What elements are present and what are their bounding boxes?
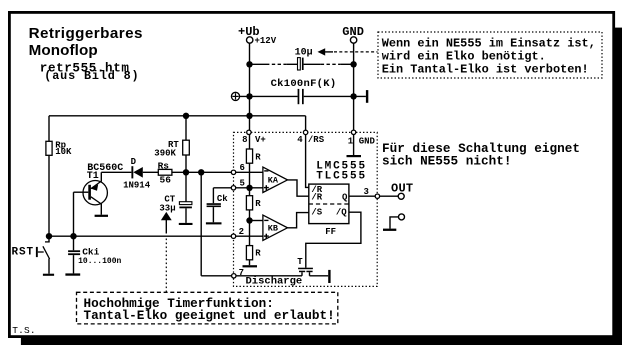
svg-text:RST: RST xyxy=(12,246,35,258)
svg-text:Ein Tantal-Elko ist verboten!: Ein Tantal-Elko ist verboten! xyxy=(382,62,589,76)
junction rail/RT xyxy=(183,113,189,119)
ground bar under Cki xyxy=(65,273,80,275)
wire 10µ right (dash-dot) xyxy=(304,63,354,65)
wire R mid to bottom xyxy=(249,210,251,246)
junction +Ub/Ck xyxy=(246,93,252,99)
svg-text:Wenn ein NE555 im Einsatz ist,: Wenn ein NE555 im Einsatz ist, xyxy=(382,37,596,51)
svg-text:/S: /S xyxy=(311,207,322,217)
resistor Rp xyxy=(46,116,72,236)
pin 5 circle xyxy=(231,186,235,190)
pin 3 circle xyxy=(375,194,379,198)
svg-text:/RS: /RS xyxy=(308,135,325,145)
svg-text:Retriggerbares: Retriggerbares xyxy=(29,25,143,42)
wire pin5 to KA+ xyxy=(234,187,263,189)
annotation arrow to 10µ xyxy=(318,48,378,55)
pin 8 circle xyxy=(247,130,251,134)
svg-text:390K: 390K xyxy=(154,149,176,159)
node plus-marker xyxy=(231,92,239,100)
svg-text:D: D xyxy=(131,157,137,167)
svg-text:Monoflop: Monoflop xyxy=(29,42,98,59)
wire Q to pin3 xyxy=(349,195,376,197)
diode D 1N914 xyxy=(101,157,158,190)
svg-text:Ck: Ck xyxy=(217,194,228,204)
title Retriggerbares Monoflop xyxy=(29,25,143,59)
wire R bottom to ground xyxy=(249,260,251,265)
resistor R bottom xyxy=(246,246,261,260)
comparator KA xyxy=(263,167,288,192)
wire trigger rail (pin2) xyxy=(49,235,263,237)
svg-text:Tantal-Elko geeignet und erlau: Tantal-Elko geeignet und erlaubt! xyxy=(84,308,335,323)
IC labels LMC555 TLC555 xyxy=(316,161,367,183)
svg-text:Cki: Cki xyxy=(82,247,99,258)
capacitor 10µ xyxy=(295,48,313,70)
wire pin4 to FF xyxy=(306,134,309,187)
svg-text:R: R xyxy=(255,152,261,162)
frame shadow right xyxy=(615,28,622,345)
svg-text:+12V: +12V xyxy=(255,36,277,46)
svg-text:T.S.: T.S. xyxy=(12,325,35,336)
ground bar terminal discharge xyxy=(328,270,330,283)
junction GND/Ck xyxy=(350,93,356,99)
svg-text:wird ein Elko benötigt.: wird ein Elko benötigt. xyxy=(382,49,546,63)
svg-text:3: 3 xyxy=(364,187,369,197)
wire pin1 to ground xyxy=(353,134,355,155)
svg-text:(aus Bild 8): (aus Bild 8) xyxy=(44,69,139,83)
capacitor Ck 100nF xyxy=(271,78,337,104)
capacitor Cki 10...100n xyxy=(68,236,121,273)
pin 4 label /RS xyxy=(297,135,324,145)
ground bar terminal right of Ck xyxy=(366,90,368,103)
wire Ck line left xyxy=(240,95,298,97)
svg-text:Ck100nF(K): Ck100nF(K) xyxy=(271,78,337,90)
ground bar pin1 xyxy=(347,155,362,157)
svg-text:sich NE555 nicht!: sich NE555 nicht! xyxy=(382,153,511,168)
wire GND vertical rail xyxy=(353,43,355,130)
junction Rp/RST xyxy=(46,233,52,239)
junction divider/KB xyxy=(246,217,252,223)
wire pin3 to OUT xyxy=(380,195,399,197)
junction +Ub/10µ xyxy=(246,61,252,67)
IC 555 dotted boundary xyxy=(234,132,378,286)
svg-text:V+: V+ xyxy=(255,135,266,145)
pin 1 circle xyxy=(351,130,355,134)
wire KB- input xyxy=(250,220,263,222)
node output ground stub xyxy=(383,214,405,231)
transistor T discharge xyxy=(297,257,313,276)
svg-text:4: 4 xyxy=(297,135,303,145)
text box Hochohmige Timerfunktion xyxy=(77,292,338,324)
pin 2 circle xyxy=(231,234,235,238)
wire Ck line right xyxy=(304,95,366,97)
svg-text:7: 7 xyxy=(239,268,244,278)
wire T1 base drop xyxy=(73,192,75,236)
resistor R top xyxy=(246,149,261,163)
resistor RT 390K xyxy=(154,116,189,173)
pin 6 circle xyxy=(231,170,235,174)
switch RST xyxy=(12,236,50,274)
svg-text:T: T xyxy=(297,257,303,267)
svg-text:GND: GND xyxy=(359,137,376,147)
ground bar under RST xyxy=(43,274,54,276)
svg-text:6: 6 xyxy=(240,163,245,173)
ground bar under Ck xyxy=(206,222,222,224)
svg-text:8: 8 xyxy=(242,135,247,145)
junction divider/pin5 xyxy=(246,185,252,191)
wire top rail xyxy=(49,115,306,117)
junction discharge drop xyxy=(198,169,204,175)
pin 7 circle xyxy=(232,274,236,278)
capacitor CT 33µ xyxy=(159,172,192,223)
svg-text:2: 2 xyxy=(239,227,244,237)
text box Wenn ein NE555 xyxy=(378,32,602,78)
wire KB out to FF xyxy=(288,213,309,228)
resistor R middle xyxy=(246,196,261,210)
ground bar divider xyxy=(243,265,258,267)
node GND terminal xyxy=(342,25,364,43)
text Für diese Schaltung xyxy=(382,141,580,168)
pin 4 circle xyxy=(303,130,307,134)
junction RT/trigger line xyxy=(183,169,189,175)
junction GND/10µ xyxy=(350,61,356,67)
ground bar under CT xyxy=(179,223,193,225)
wire /Q to discharge gate xyxy=(306,212,361,268)
resistor Rs 56 xyxy=(158,161,172,186)
node OUT terminal xyxy=(391,182,413,200)
wire 10µ left (dash-dot) xyxy=(250,63,298,65)
ground bar under T1 xyxy=(95,215,108,217)
wire +Ub vertical rail xyxy=(249,43,251,130)
junction T1 base/Cki xyxy=(70,233,76,239)
svg-text:R: R xyxy=(255,248,261,258)
wire KA out to FF xyxy=(288,180,309,196)
wire discharge drop from trigger node xyxy=(200,172,202,275)
comparator KB xyxy=(263,215,288,240)
svg-text:FF: FF xyxy=(325,227,336,237)
transistor T1 BC560C xyxy=(74,163,124,215)
svg-text:56: 56 xyxy=(160,174,172,185)
svg-text:KA: KA xyxy=(268,176,279,186)
flip-flop FF xyxy=(309,184,349,237)
svg-text:TLC555: TLC555 xyxy=(316,171,367,183)
svg-text:10K: 10K xyxy=(55,147,72,157)
svg-text:KB: KB xyxy=(268,224,278,234)
pin 8 label V+ xyxy=(242,135,266,145)
capacitor Ck (control voltage) xyxy=(207,188,234,223)
svg-text:Discharge: Discharge xyxy=(246,276,303,288)
wire discharge to ground bar xyxy=(310,275,329,277)
divider R chain wire xyxy=(249,134,251,149)
wire R top to mid xyxy=(249,163,251,196)
svg-text:1N914: 1N914 xyxy=(123,180,151,190)
wire pin4 drop from rail xyxy=(305,116,307,131)
svg-text:33µ: 33µ xyxy=(159,203,175,213)
node +Ub terminal xyxy=(238,25,277,46)
svg-text:10...100n: 10...100n xyxy=(78,257,121,266)
frame shadow bottom xyxy=(21,338,622,345)
pin 1 label GND xyxy=(348,137,376,147)
wire pin7 line xyxy=(201,275,302,277)
wire Rs to pin6 and KA- input xyxy=(172,171,263,173)
svg-text:Q: Q xyxy=(342,193,348,203)
junction rail/+Ub xyxy=(246,113,252,119)
svg-text:/Q: /Q xyxy=(336,207,347,217)
svg-text:/R: /R xyxy=(311,193,322,203)
svg-text:R: R xyxy=(255,199,261,209)
annotation arrow to CT xyxy=(161,212,172,292)
svg-text:5: 5 xyxy=(240,179,245,189)
